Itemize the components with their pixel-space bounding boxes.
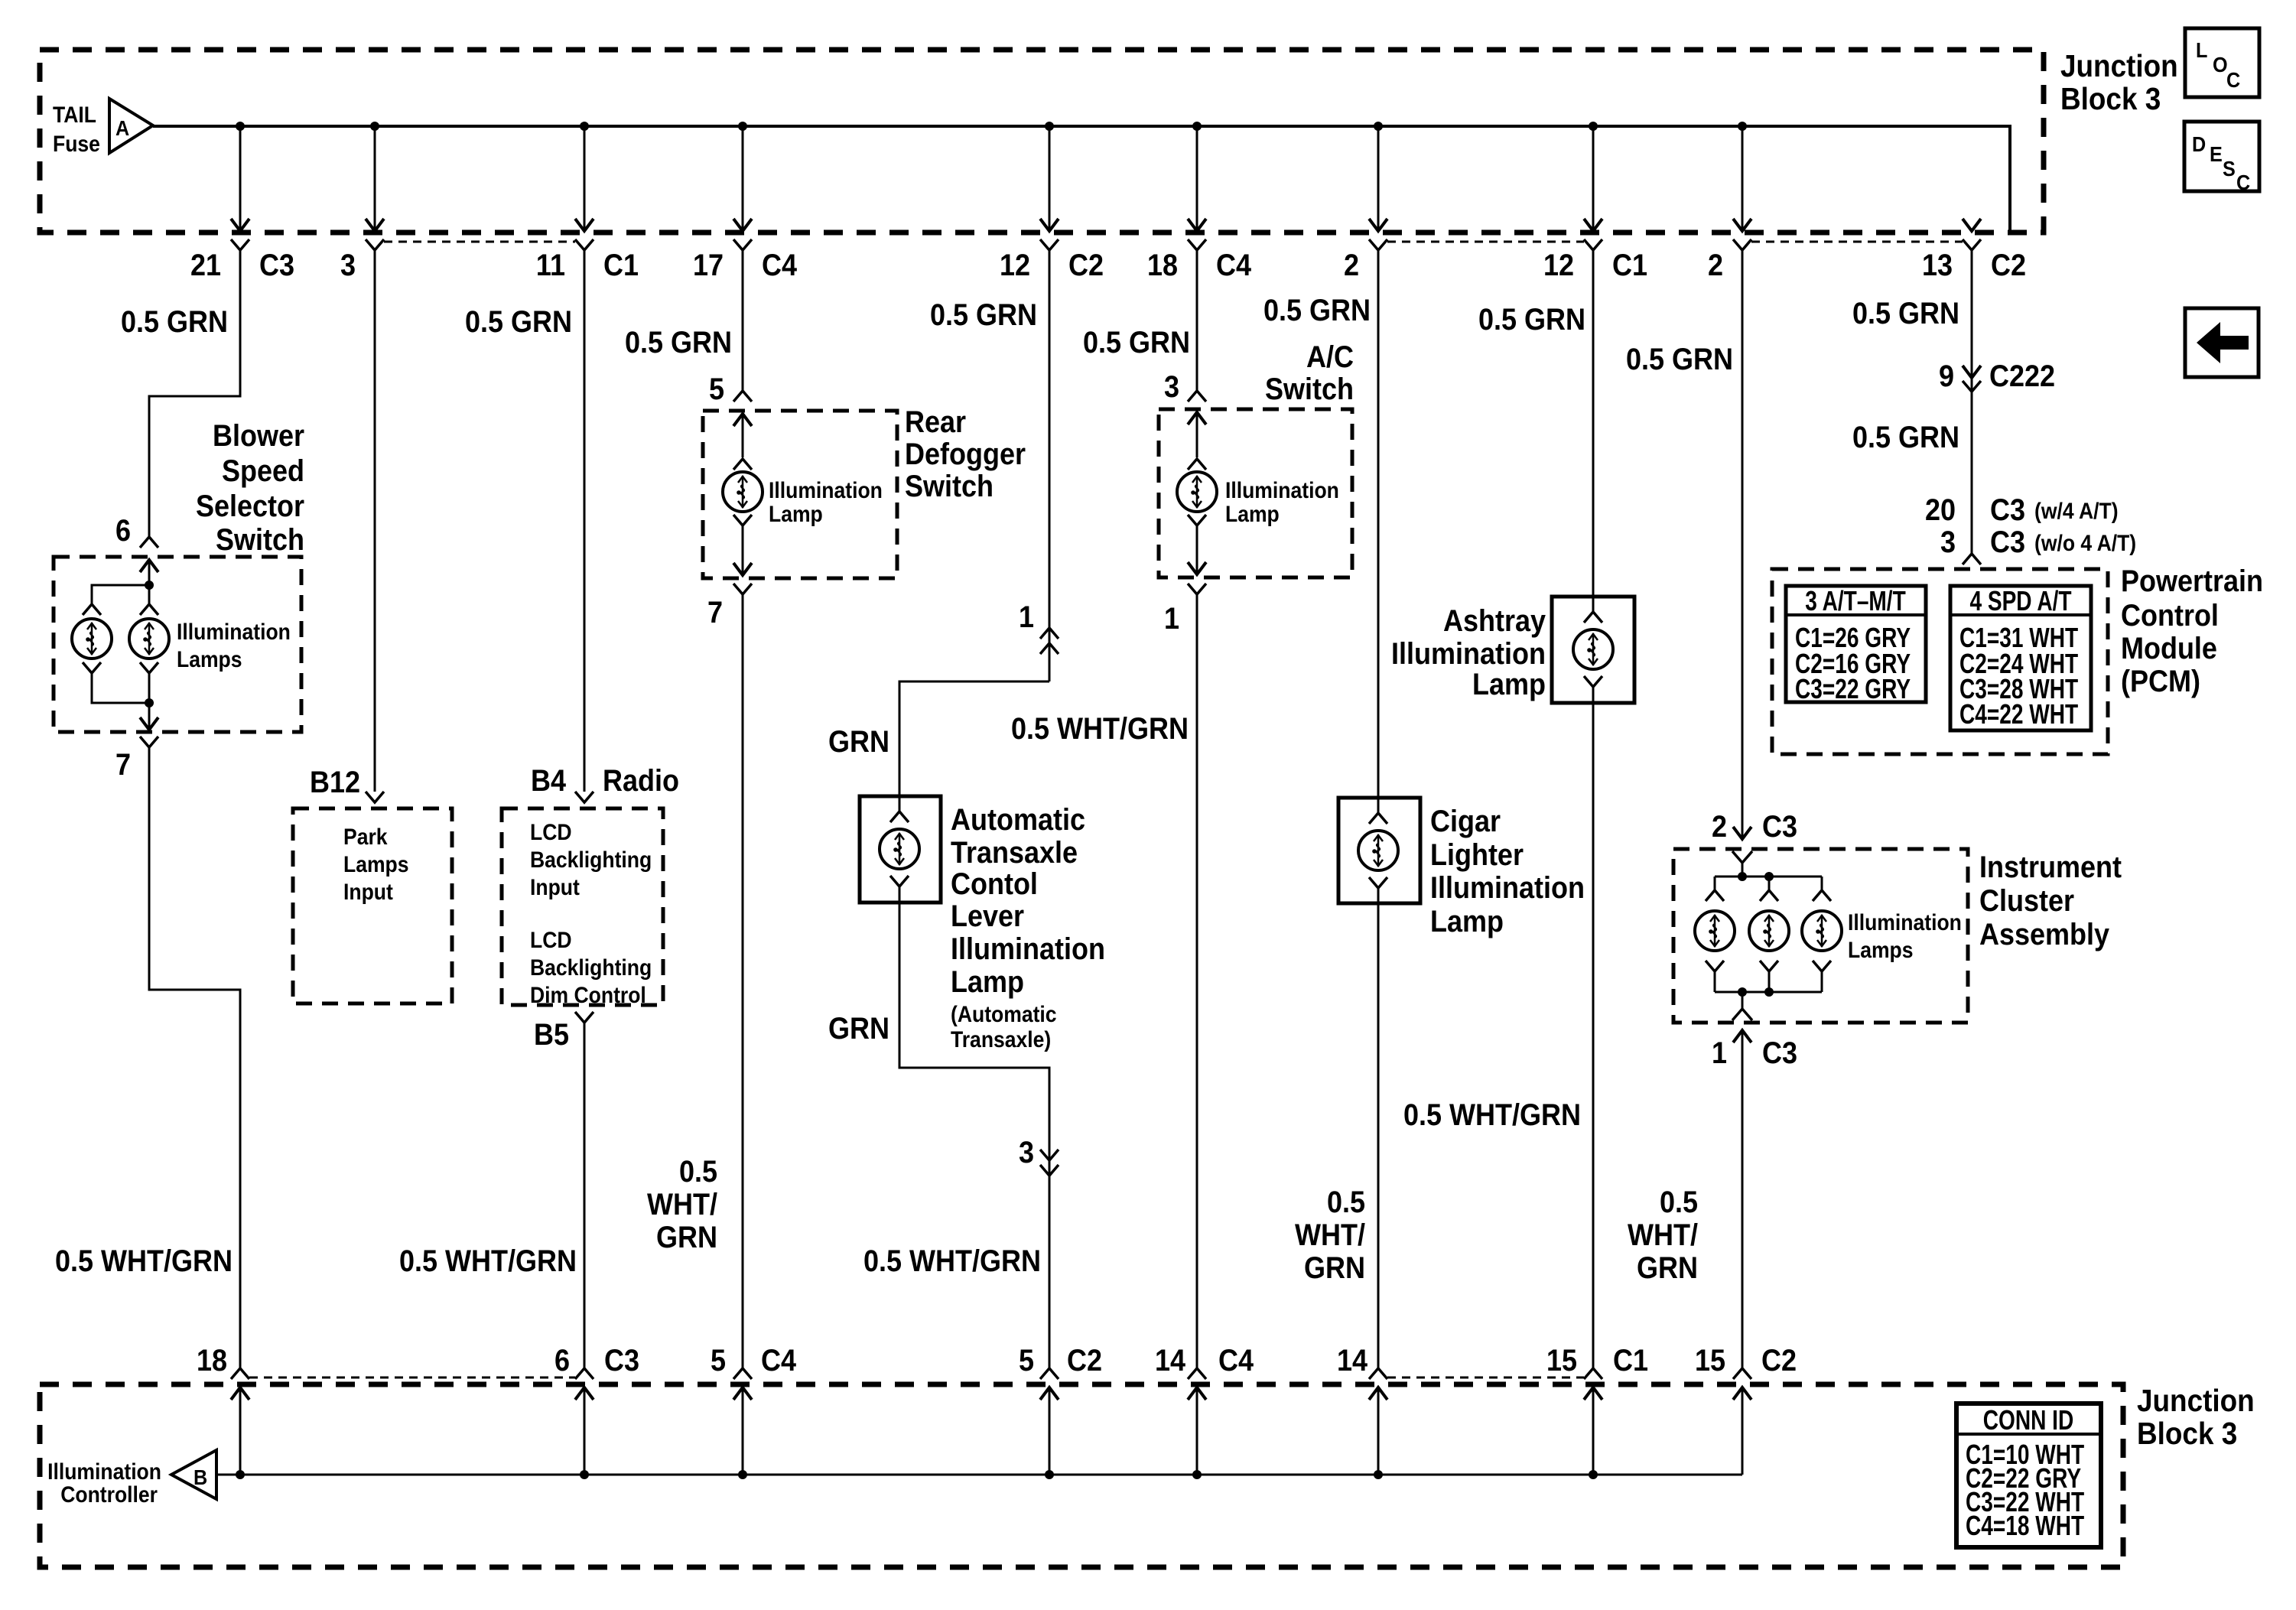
DESC reference box [2184,122,2259,194]
cluster lamp branch 3 lower [1813,961,1831,992]
A/C switch dashed box [1159,409,1352,577]
radio dashed box [502,808,663,1005]
terminal chevron below A/C lamp [1188,515,1206,525]
svg-text:C222: C222 [1989,359,2055,393]
wire: 0.5 GRN from pin 11 C1 to radio B4 [584,250,586,792]
rear defogger switch title [905,405,1026,503]
wire: 0.5 GRN from pin 12 C2 down [1049,250,1051,681]
svg-text:Lamp: Lamp [1225,502,1280,527]
cluster female connector (bottom) [1732,1009,1752,1020]
svg-text:A/C: A/C [1306,340,1354,374]
svg-text:Illumination: Illumination [1391,637,1546,671]
svg-text:Switch: Switch [216,523,304,557]
svg-text:(w/4 A/T): (w/4 A/T) [2034,499,2119,524]
svg-text:Blower: Blower [213,419,304,453]
svg-text:2: 2 [1712,810,1727,844]
svg-text:C2: C2 [1761,1344,1797,1377]
LOC reference box [2185,28,2259,97]
cluster lamp branch 2 upper [1760,877,1778,901]
svg-text:0.5 WHT/GRN: 0.5 WHT/GRN [1011,712,1189,746]
wire label 0.5 WHT/GRN (wire 4, stacked) [647,1155,717,1254]
inline connector C222 pin 9 [1963,366,1981,392]
svg-text:WHT/: WHT/ [1628,1218,1698,1252]
svg-text:Fuse: Fuse [53,132,100,157]
illumination lamp 1 (blower switch) [72,619,112,659]
bus drop / junction block exit, pin 17 C4 [733,122,752,250]
illumination lamp 1 (instrument cluster) [1695,911,1735,951]
terminal chevron above blower lamp 2 [140,604,158,615]
svg-text:Controller: Controller [60,1482,158,1508]
svg-text:Instrument: Instrument [1979,851,2122,884]
illumination lamp (A/C switch) [1177,472,1217,512]
svg-text:Backlighting: Backlighting [530,955,652,981]
wire: 0.5 GRN from pin 3 to radio park lamps input B12 [374,250,376,792]
CONN ID table [1956,1403,2101,1547]
ashtray lamp box [1552,597,1634,703]
wire branch to left blower lamp [92,585,149,604]
svg-text:Module: Module [2121,632,2217,665]
cluster female connector (top) [1732,851,1752,863]
svg-text:14: 14 [1155,1344,1185,1377]
cluster lamp branch 1 upper [1706,877,1724,901]
svg-text:C3: C3 [1762,810,1797,844]
wire: 0.5 GRN from pin 21 C3 to blower switch pin 6 [149,250,240,536]
PCM connector table 4 SPD A/T [1950,586,2091,730]
svg-text:(PCM): (PCM) [2121,665,2200,698]
svg-text:Illumination: Illumination [1225,478,1339,503]
node: bus junction at x=971 [738,1470,747,1479]
svg-text:21: 21 [190,249,221,282]
junction block entry at x=314 (chevron + arrow) [231,1368,249,1475]
Illumination Lamps label (cluster) [1848,910,1962,963]
powertrain control module dashed box [1772,569,2108,754]
svg-text:0.5 WHT/GRN: 0.5 WHT/GRN [863,1244,1041,1278]
svg-text:15: 15 [1695,1344,1725,1377]
svg-text:0.5 GRN: 0.5 GRN [625,326,732,359]
LCD Backlighting Dim Control label [530,928,652,1008]
powertrain control module title [2121,564,2263,698]
svg-text:Lamps: Lamps [343,852,409,877]
svg-text:7: 7 [115,748,131,782]
pin label 15 C2 [1695,1344,1797,1377]
junction block entry at x=2083 (chevron + arrow) [1584,1368,1602,1475]
svg-text:C3: C3 [1990,493,2025,527]
internal bus to illumination controller [216,1474,1742,1476]
node: cluster rail at lamp 2 [1764,872,1774,881]
svg-text:Illumination: Illumination [47,1459,161,1485]
pin label 15 C1 [1546,1344,1648,1377]
wire: 0.5 WHT/GRN from ashtray lamp to junction block pin 15 C1 [1592,703,1595,1368]
connector chevron at A/C pin 1 [1188,584,1206,594]
Illumination Controller label [47,1459,161,1508]
pin label 18 C4 [1147,249,1251,282]
svg-text:9: 9 [1939,359,1954,393]
svg-text:3: 3 [1019,1136,1034,1169]
svg-text:13: 13 [1922,249,1953,282]
pin label 11 C1 [536,249,639,282]
wire: 0.5 GRN from pin 12 C1 to ashtray lamp [1592,250,1595,597]
svg-text:LCD: LCD [530,820,572,845]
svg-text:Junction: Junction [2060,49,2178,83]
svg-text:Control: Control [2121,599,2219,633]
svg-text:17: 17 [693,249,724,282]
svg-text:TAIL: TAIL [53,102,96,128]
pin label 2 [1344,249,1359,282]
pin label 12 C1 [1543,249,1647,282]
connector chevron at defogger pin 7 [733,584,752,594]
node: bus junction at x=764 [580,1470,589,1479]
illumination lamp 2 (blower switch) [129,619,169,659]
node: blower lamps bottom junction [145,698,154,707]
wire from rail to cluster bottom connector [1742,992,1744,1009]
svg-text:Lamps: Lamps [177,647,242,672]
pin label B4 / Radio [531,764,679,798]
svg-text:Defogger: Defogger [905,437,1026,471]
wire: 0.5 GRN from pin 2 to cigar lighter lamp [1377,250,1380,798]
svg-text:C4: C4 [1216,249,1251,282]
wire from cluster connector to lamp rail [1742,863,1744,877]
svg-text:A: A [115,116,129,141]
svg-text:C3: C3 [259,249,294,282]
pin label 17 C4 [693,249,797,282]
connector chevron at A/C pin 3 [1188,391,1206,402]
terminal chevron above cigar lamp [1369,798,1387,824]
node: bus junction at x=314 [236,1470,245,1479]
svg-text:Illumination: Illumination [1430,871,1585,905]
svg-text:C4=18 WHT: C4=18 WHT [1966,1511,2084,1541]
svg-text:0.5 GRN: 0.5 GRN [1626,343,1733,376]
svg-text:Illumination: Illumination [951,932,1105,966]
svg-text:2: 2 [1344,249,1359,282]
connector chevron at PCM entry [1963,554,1981,564]
svg-text:Block 3: Block 3 [2060,82,2161,116]
svg-text:Lamp: Lamp [1472,668,1546,701]
svg-text:0.5 GRN: 0.5 GRN [1083,326,1190,359]
svg-text:1: 1 [1712,1036,1727,1070]
instrument cluster assembly dashed box [1673,849,1968,1023]
svg-text:C3: C3 [1990,525,2025,559]
TAIL Fuse label [53,102,100,157]
terminal chevron below ashtray lamp [1584,676,1602,703]
svg-text:Assembly: Assembly [1979,918,2109,951]
svg-text:Radio: Radio [603,764,679,798]
junction block entry at x=2278 (chevron + arrow) [1733,1368,1751,1475]
cigar lighter lamp title [1430,805,1585,938]
illumination lamp 2 (instrument cluster) [1749,911,1789,951]
wire: 0.5 GRN from pin 2 to instrument cluster pin 2 C3 [1742,250,1744,839]
entry arrow inside blower switch [140,560,158,585]
fine dashed connector line (top, C1 group right) [1387,241,1584,243]
fuse symbol A (triangle) [109,99,153,153]
wire: 0.5 GRN from pin 18 C4 to A/C switch pin 3 [1196,250,1198,390]
svg-text:18: 18 [1147,249,1178,282]
svg-text:12: 12 [1543,249,1574,282]
inline connector pin 1 (double chevron) [1040,628,1059,654]
svg-text:C1: C1 [603,249,639,282]
junction block entry at x=764 (chevron + arrow) [575,1368,594,1475]
junction block entry at x=1802 (chevron + arrow) [1369,1368,1387,1475]
svg-text:Illumination: Illumination [177,620,291,645]
junction block entry at x=1372 (chevron + arrow) [1040,1368,1059,1475]
svg-text:7: 7 [707,596,723,629]
pin label 3 [340,249,356,282]
svg-text:Switch: Switch [1265,372,1354,406]
svg-text:C2: C2 [1991,249,2026,282]
bus drop / junction block exit, pin 11 C1 [575,122,594,250]
wire from blower lamp 1 to bottom junction [92,673,149,703]
svg-text:Speed: Speed [222,454,304,488]
node: cluster rail at feed wire [1738,872,1747,881]
connector chevron at defogger pin 5 [733,391,752,402]
svg-text:3: 3 [1164,370,1179,404]
wire label 0.5 WHT/GRN (wire 9, stacked) [1628,1186,1698,1285]
junction block 3 (top) dashed border [40,50,2044,233]
svg-text:LCD: LCD [530,928,572,953]
entry arrow at cluster pin 2 C3 [1733,827,1751,839]
svg-text:Automatic: Automatic [951,803,1085,837]
pin label 13 C2 [1922,249,2026,282]
cluster lamp branch 3 upper [1813,877,1831,901]
svg-text:B4: B4 [531,764,566,798]
svg-text:Lever: Lever [951,899,1024,933]
junction block entry at x=971 (chevron + arrow) [733,1368,752,1475]
svg-text:Selector: Selector [196,490,304,523]
wire: 0.5 GRN from pin 17 C4 to rear defogger pin 5 [742,250,744,390]
svg-text:5: 5 [711,1344,726,1377]
svg-text:0.5: 0.5 [1660,1186,1698,1219]
svg-text:Junction: Junction [2137,1384,2255,1418]
cluster lamp branch 1 lower [1706,961,1724,992]
svg-text:Transaxle): Transaxle) [951,1027,1051,1052]
svg-text:C4: C4 [1218,1344,1254,1377]
svg-text:Lamp: Lamp [1430,905,1504,938]
wire GRN from transaxle lamp back to main run [899,903,1049,1368]
junction block 3 (bottom) dashed border [40,1384,2123,1567]
svg-text:GRN: GRN [828,725,889,759]
blower switch title [196,419,304,557]
svg-text:B5: B5 [534,1018,569,1052]
rear defogger switch dashed box [703,411,897,578]
svg-text:5: 5 [709,372,724,406]
pin label 2 [1708,249,1723,282]
Illumination Lamp label (A/C) [1225,478,1339,527]
A/C Switch title [1265,340,1354,406]
svg-text:C3=22 GRY: C3=22 GRY [1795,674,1911,704]
connector chevron at B4 [575,792,594,802]
bus drop / junction block exit, pin 3 [366,122,384,250]
park lamps input dashed box [293,808,452,1003]
svg-text:Illumination: Illumination [769,478,883,503]
svg-text:B: B [194,1465,207,1490]
illumination lamp (ashtray) [1573,629,1613,669]
connector chevron at B5 [575,1012,594,1023]
node: bus junction at x=1565 [1192,1470,1202,1479]
pin label 5 C2 [1019,1344,1102,1377]
svg-text:WHT/: WHT/ [1295,1218,1365,1252]
illumination lamp (automatic transaxle control lever) [880,829,919,869]
svg-text:Lamp: Lamp [951,965,1024,999]
Junction Block 3 title (bottom right) [2137,1384,2255,1451]
terminal chevron above ashtray lamp [1584,597,1602,623]
pin label 6 C3 [554,1344,639,1377]
wire: 0.5 WHT/GRN from defogger pin 7 to junction block pin 5 C4 [742,594,744,1368]
pin label 21 C3 [190,249,294,282]
svg-text:Backlighting: Backlighting [530,847,652,873]
pin label 12 C2 [1000,249,1104,282]
svg-text:C3: C3 [604,1344,639,1377]
wire: 0.5 WHT/GRN from cigar lamp to junction block pin 14 [1377,903,1380,1368]
bus drop / junction block exit, pin 2 [1369,122,1387,250]
svg-text:C: C [2236,171,2250,195]
cluster lamp bottom rail [1715,991,1822,994]
automatic transaxle lamp box [860,796,941,903]
terminal chevron below transaxle lamp [890,876,909,903]
svg-text:0.5 GRN: 0.5 GRN [1263,294,1371,327]
svg-text:18: 18 [197,1344,227,1377]
svg-text:0.5 WHT/GRN: 0.5 WHT/GRN [399,1244,577,1278]
terminal chevron above transaxle lamp [890,796,909,822]
exit arrow inside blower switch [140,703,158,730]
svg-text:0.5 WHT/GRN: 0.5 WHT/GRN [55,1244,233,1278]
pin label 1 C3 (cluster bottom) [1712,1036,1797,1070]
svg-text:C4=22 WHT: C4=22 WHT [1959,699,2078,730]
svg-text:0.5 GRN: 0.5 GRN [1852,297,1959,330]
inline connector pin 3 (double chevron down) [1040,1150,1059,1176]
svg-text:0.5 GRN: 0.5 GRN [465,305,572,339]
Junction Block 3 title (top right) [2060,49,2178,116]
blower speed selector switch dashed box [54,557,301,732]
svg-text:C1: C1 [1612,249,1647,282]
svg-text:Input: Input [530,875,580,900]
node: cluster bottom rail at exit wire [1738,987,1747,997]
terminal chevron below blower lamp 2 [140,662,158,673]
svg-text:Park: Park [343,825,388,850]
entry arrow inside defogger [733,414,752,457]
pin label 9 C222 [1939,359,2055,393]
Park Lamps Input label [343,825,409,905]
wire: 0.5 WHT/GRN from blower pin 7 to junction block pin 18 [149,747,240,1368]
svg-text:Lamp: Lamp [769,502,823,527]
svg-text:1: 1 [1019,600,1034,634]
svg-text:12: 12 [1000,249,1030,282]
svg-text:Contol: Contol [951,867,1038,901]
svg-text:GRN: GRN [828,1012,889,1046]
PCM connector table 3 A/T-M/T [1786,586,1926,704]
svg-text:3: 3 [1940,525,1956,559]
bus drop / junction block exit, pin 12 C2 [1040,122,1059,250]
svg-text:0.5: 0.5 [1327,1186,1365,1219]
terminal chevron below cigar lamp [1369,877,1387,903]
svg-text:Transaxle: Transaxle [951,836,1078,870]
Illumination Lamps label (blower) [177,620,291,672]
svg-text:0.5 WHT/GRN: 0.5 WHT/GRN [1403,1098,1581,1132]
svg-text:Powertrain: Powertrain [2121,564,2263,598]
svg-text:0.5 GRN: 0.5 GRN [1852,421,1959,454]
bus drop / junction block exit, pin 13 C2 [1963,219,1981,250]
svg-text:6: 6 [115,514,131,548]
terminal chevron below defogger lamp [733,515,752,525]
svg-text:1: 1 [1164,602,1179,636]
node: blower lamps top junction [145,581,154,590]
svg-text:(Automatic: (Automatic [951,1002,1057,1027]
svg-text:11: 11 [536,249,565,282]
bus drop / junction block exit, pin 2 [1733,122,1751,250]
svg-text:C: C [2226,68,2240,93]
svg-text:3 A/T–M/T: 3 A/T–M/T [1805,586,1906,616]
svg-text:WHT/: WHT/ [647,1188,717,1221]
automatic transaxle lamp title [951,803,1105,1052]
node: cluster bottom rail at lamp 2 [1764,987,1774,997]
LCD Backlighting Input label [530,820,652,900]
exit arrow at cluster pin 1 C3 [1733,1030,1751,1368]
svg-text:20: 20 [1925,493,1956,527]
wire label 0.5 WHT/GRN (wire 7, stacked) [1295,1186,1365,1285]
svg-text:O: O [2213,53,2228,77]
node: bus junction at x=2083 [1589,1470,1598,1479]
fine dashed connector line (bottom, left group) [249,1377,575,1379]
svg-text:C2: C2 [1068,249,1104,282]
svg-text:Illumination: Illumination [1848,910,1962,935]
svg-text:Cluster: Cluster [1979,884,2074,918]
bus drop / junction block exit, pin 21 C3 [231,122,249,250]
svg-text:4 SPD A/T: 4 SPD A/T [1969,586,2071,616]
svg-text:C3: C3 [1762,1036,1797,1070]
svg-text:5: 5 [1019,1344,1034,1377]
svg-text:Block 3: Block 3 [2137,1416,2237,1451]
svg-text:2: 2 [1708,249,1723,282]
illumination controller output B (triangle) [171,1450,216,1499]
back-arrow reference box [2185,308,2259,377]
svg-text:0.5: 0.5 [679,1155,717,1189]
svg-text:3: 3 [340,249,356,282]
pin label 2 C3 (cluster top) [1712,810,1797,844]
exit arrow inside defogger [733,525,752,575]
wire: 0.5 WHT/GRN from radio B5 to junction block pin 6 C3 [584,1023,586,1368]
svg-text:C2: C2 [1067,1344,1102,1377]
svg-text:GRN: GRN [1637,1251,1698,1285]
illumination lamp (rear defogger switch) [723,472,763,512]
fine dashed connector line (top, C1 group) [384,241,575,243]
svg-text:C4: C4 [762,249,797,282]
svg-text:GRN: GRN [1304,1251,1365,1285]
svg-text:D: D [2192,132,2206,157]
node: bus junction at x=1372 [1045,1470,1054,1479]
svg-text:Lighter: Lighter [1430,838,1524,872]
svg-text:0.5 GRN: 0.5 GRN [930,298,1037,332]
terminal chevron above blower lamp 1 [83,604,101,615]
wire from blower lamp 2 down [148,673,151,703]
cluster lamp top rail [1715,876,1822,878]
svg-text:S: S [2223,157,2236,181]
svg-text:0.5 GRN: 0.5 GRN [121,305,228,339]
svg-text:B12: B12 [310,766,360,799]
connector chevron at B12 [366,792,384,802]
fine dashed connector line (top, C2 group) [1751,241,1963,243]
svg-text:E: E [2210,142,2223,167]
illumination lamp (cigar lighter) [1358,831,1398,870]
svg-text:Cigar: Cigar [1430,805,1501,838]
svg-text:C1: C1 [1613,1344,1648,1377]
wire: 0.5 GRN from pin 13 C2 to PCM [1971,250,1973,553]
svg-text:L: L [2196,38,2207,63]
cluster lamp branch 2 lower [1760,961,1778,992]
wire: 0.5 WHT/GRN from A/C pin 1 to junction block pin 14 C4 [1196,594,1198,1368]
terminal chevron above defogger lamp [733,459,752,470]
svg-text:Rear: Rear [905,405,966,439]
bus drop / junction block exit, pin 12 C1 [1584,122,1602,250]
svg-text:Lamps: Lamps [1848,938,1914,963]
bus drop / junction block exit, pin 18 C4 [1188,122,1206,250]
